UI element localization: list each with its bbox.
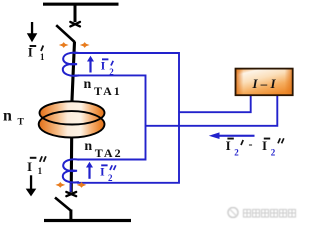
wire: stub from top busbar (74, 5, 77, 22)
CT2 secondary winding (63, 159, 79, 182)
relay box I-I (236, 69, 293, 96)
polarity star CT1 left (59, 42, 69, 48)
breaker QF1 blade (56, 25, 74, 42)
wire: CT1 top lead to right vertical, down, CT2 bottom lead (74, 53, 179, 183)
svg-text:TA2: TA2 (95, 146, 123, 160)
svg-text:n: n (3, 108, 12, 125)
label I2' - I2'' (226, 137, 284, 158)
transformer nT upper ellipse fill (40, 101, 105, 124)
label I1' (28, 44, 45, 62)
breaker QF1 contact cross (70, 22, 80, 27)
svg-text:T: T (18, 117, 25, 127)
label I2'' (100, 164, 116, 183)
svg-text:1: 1 (40, 52, 45, 62)
wire: stub to bottom busbar (69, 210, 72, 221)
svg-text:I: I (226, 138, 231, 153)
label nTA1 (84, 77, 122, 98)
label nTA2 (84, 139, 122, 160)
svg-text:TA1: TA1 (94, 84, 122, 98)
svg-text:2: 2 (234, 148, 239, 158)
wire: CT1 bottom lead to middle vertical, down, CT2 top lead (74, 75, 146, 159)
svg-text:1: 1 (38, 166, 43, 176)
arrow I1'' (primary current bottom) (26, 175, 37, 196)
svg-text:I: I (100, 164, 105, 178)
bottom busbar (44, 219, 131, 222)
arrow I2'' (CT2 secondary current) (86, 162, 93, 179)
svg-text:2: 2 (109, 67, 114, 77)
label nT (3, 108, 25, 128)
svg-text:I: I (101, 58, 106, 72)
wire: tap to relay right terminal (146, 96, 278, 126)
wire: CT2 winding tail on conductor (70, 184, 72, 192)
svg-text:I – I: I – I (251, 76, 276, 91)
polarity star CT2 left (55, 182, 65, 188)
polarity star CT1 right (80, 42, 90, 48)
svg-text:2: 2 (108, 173, 113, 183)
transformer nT lower ellipse fill (39, 111, 105, 137)
svg-text:n: n (84, 139, 92, 154)
breaker QF2 contact cross (66, 192, 76, 196)
polarity star CT2 right (77, 182, 87, 188)
svg-text:I: I (28, 44, 33, 59)
svg-text:I: I (262, 138, 267, 153)
label I1'' (27, 156, 46, 176)
svg-text:I: I (27, 159, 32, 174)
svg-text:n: n (84, 77, 92, 92)
transformer nT lower ellipse outline (39, 111, 105, 137)
svg-text:2: 2 (271, 148, 276, 158)
watermark text blocks (244, 210, 296, 218)
wire: tap to relay left terminal (179, 96, 251, 113)
arrow I2' (CT1 secondary current) (87, 56, 94, 73)
CT1 secondary winding (63, 53, 79, 76)
top busbar (43, 3, 119, 6)
svg-text:-: - (249, 137, 253, 151)
watermark logo (228, 208, 296, 218)
arrow I1' (primary current top) (27, 22, 38, 42)
transformer nT upper ellipse outline (40, 101, 105, 124)
label I2' (101, 58, 115, 77)
arrow I2'-I2'' (differential current) (209, 132, 255, 139)
breaker QF2 blade (55, 198, 71, 211)
wire: main primary conductor (71, 42, 74, 193)
